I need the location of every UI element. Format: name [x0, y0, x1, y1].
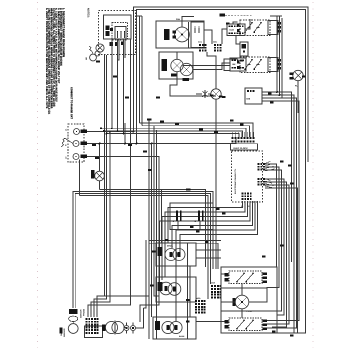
wire clock drop A: [168, 201, 243, 243]
wire clock fan 1: [265, 164, 277, 267]
wire thermostat drop: [241, 309, 243, 318]
lv connector box: [85, 326, 103, 338]
wire tag 8: [186, 299, 190, 301]
wire center riser 3: [154, 126, 159, 296]
wire clock fan 3: [265, 170, 282, 311]
clock dashed enclosure: [232, 151, 263, 202]
surface switch A right pins: [278, 22, 282, 25]
svg-text:T'STAT: T'STAT: [246, 310, 253, 313]
transformer primary: [105, 321, 117, 333]
wire tag 4: [165, 239, 169, 241]
svg-text:1. DISCONNECT RANGE FROM POWER: 1. DISCONNECT RANGE FROM POWER: [62, 8, 65, 57]
notes text block: [45, 8, 73, 120]
terminal lug L2: [81, 155, 88, 159]
wire tag 14: [143, 151, 147, 153]
third igniter box: [153, 317, 196, 339]
wire tag 16: [175, 123, 179, 125]
wire tag 25: [240, 123, 244, 125]
relay K2 pins: [232, 59, 234, 61]
wire drop pair D: [117, 39, 119, 131]
wire bundle clock 2: [142, 126, 250, 137]
wire tag 2: [186, 189, 191, 191]
surface switch B right pins: [278, 59, 282, 62]
surface switch B right box: [268, 58, 278, 72]
terminal lug N: [81, 142, 88, 146]
svg-text:NOTES:: NOTES:: [87, 8, 90, 18]
valve switch 2 right pins: [263, 319, 267, 322]
harness connector grid: [211, 285, 213, 287]
fan lead tags: [171, 74, 177, 77]
wire valve internal 1: [249, 288, 277, 303]
surface switch B dashed box: [240, 57, 270, 73]
wire drop B to L1 corner: [91, 132, 110, 318]
bake igniter label: [158, 282, 163, 291]
wire bus riser 4: [141, 16, 143, 126]
wire L2 feed: [87, 157, 159, 297]
wire cross line 1: [149, 240, 221, 242]
cavity loop line 3: [75, 194, 210, 309]
wire top bus stub: [135, 15, 142, 17]
wire clock fan 7: [265, 188, 298, 333]
wire tag 34: [262, 256, 266, 258]
surface indicator lamp: [90, 54, 97, 61]
surface switch B left pins: [237, 61, 240, 64]
clock body box: [231, 144, 258, 150]
terminal stud L2: [73, 154, 79, 160]
wire tag 22: [222, 96, 226, 98]
wire bundle clock 4: [104, 131, 243, 137]
right perforation dotted line: [312, 2, 314, 348]
DSI module box: [245, 88, 262, 104]
door latch box: [170, 203, 213, 230]
oven sensor ferrule: [69, 309, 77, 314]
wire tag 15: [160, 121, 164, 123]
cooling fan motor 1: [171, 59, 183, 71]
oven light labels: [91, 170, 94, 179]
wire clock drop E: [172, 201, 253, 248]
wire lamp drop: [297, 81, 299, 113]
valve switch 2 contacts: [237, 321, 244, 329]
pilot assembly between rows: [240, 42, 248, 56]
wire drop C: [111, 39, 113, 128]
connector block CB1: [214, 44, 216, 46]
wire switch top link: [270, 15, 282, 17]
wire L1 feed: [87, 131, 134, 133]
surface lamp lead squiggle: [89, 46, 92, 51]
valve switch 1 dashed box: [229, 271, 262, 284]
wire bundle clock 3: [101, 128, 246, 137]
wire tag 29: [196, 230, 200, 232]
wire tag 23: [268, 92, 272, 94]
svg-text:BAKE: BAKE: [179, 335, 185, 338]
wire junction riser: [124, 123, 126, 144]
spark cap 2: [131, 326, 136, 331]
broil igniter label: [158, 247, 163, 256]
oven light lamp: [95, 171, 105, 181]
wire tag 42: [128, 144, 132, 146]
wire motor links: [182, 17, 194, 28]
spark module outer dashed box: [99, 11, 136, 55]
svg-text:PROBE: PROBE: [83, 308, 86, 316]
clock right pins 1: [258, 163, 260, 165]
wire bus riser 3: [139, 16, 141, 123]
wire tag 18: [214, 131, 218, 133]
wire relay K1 feeds: [222, 29, 227, 44]
spark module pin labels: [110, 42, 114, 46]
svg-text:BK: BK: [233, 63, 237, 66]
wire lamp links: [208, 93, 211, 95]
oven thermostat: [235, 295, 249, 309]
wire bottom corner: [297, 326, 299, 333]
wire cross line 2: [149, 243, 218, 269]
spark module grid: [195, 300, 197, 302]
wire tag 3: [219, 96, 223, 98]
wire DSI fanout 3: [262, 98, 297, 328]
wire tag 9: [148, 169, 152, 171]
wire tag 26: [216, 208, 220, 210]
wire clock drop C: [162, 201, 248, 280]
oven light wire up: [99, 144, 101, 172]
valve section outer box: [221, 267, 277, 333]
svg-text:FAN: FAN: [176, 18, 181, 21]
door plug 2: [198, 211, 200, 222]
wire row feeds: [233, 22, 238, 24]
wire bundle clock 5: [107, 134, 240, 137]
wire fan riser: [170, 72, 216, 96]
surface switch B contacts: [245, 60, 252, 69]
wire clock drop F: [176, 201, 255, 321]
connector block CA1: [199, 44, 201, 46]
svg-text:L2: L2: [65, 156, 68, 159]
wire tag 13: [125, 97, 129, 99]
motor aux box: [191, 22, 204, 48]
ground squiggle: [62, 138, 66, 147]
spark module inner dashed box: [112, 23, 128, 41]
pin stub wires 2: [265, 179, 271, 181]
terminal stud N: [73, 141, 79, 147]
wire tag 20: [95, 157, 99, 159]
wire valve internal 2: [221, 301, 235, 303]
svg-text:A: A: [172, 220, 175, 222]
cavity loop line 2: [73, 192, 213, 309]
wire clock fan 6: [265, 185, 289, 324]
wire tag 12: [113, 76, 117, 78]
wire switch riser 1: [276, 16, 278, 92]
relay K2 box: [230, 58, 246, 71]
svg-text:DSI: DSI: [247, 98, 251, 101]
svg-text:MOD: MOD: [196, 297, 201, 300]
spark power lamp: [293, 70, 303, 80]
valve switch 1 contacts: [237, 274, 244, 282]
wire clock drop D: [160, 201, 251, 284]
wire clock drop B: [165, 201, 245, 277]
wire drop pair A: [97, 55, 105, 317]
svg-text:ELEC CLOCK: ELEC CLOCK: [234, 147, 249, 150]
surface switch A dashed box: [240, 20, 270, 36]
wire latch drops: [177, 221, 179, 230]
wire bundle clock 1: [140, 123, 254, 137]
wire DSI fanout 2: [262, 95, 294, 333]
wire cap riser: [144, 240, 147, 308]
wire drop F long: [88, 39, 131, 317]
wire top bus line 1: [134, 7, 309, 162]
svg-text:DLB: DLB: [230, 29, 235, 32]
wire center riser 4: [156, 130, 158, 339]
cooling fan enclosure: [159, 52, 193, 79]
relay K1 pins: [229, 25, 231, 27]
wire switch riser 3: [281, 18, 283, 98]
wire riser 5: [161, 190, 163, 244]
surface switch A right box: [268, 21, 278, 35]
wire valve box horizontals: [221, 273, 225, 275]
wire fans to relay: [183, 65, 230, 67]
cooling fan enclosure label: [162, 59, 168, 71]
wire riser cross links: [140, 296, 159, 322]
clock pin header row 1: [232, 137, 234, 139]
wire tag 28: [190, 226, 194, 228]
svg-text:BROIL: BROIL: [167, 245, 174, 248]
wire clock fan 4: [265, 179, 284, 315]
spark switch aux contact: [95, 51, 100, 56]
lv connector grid: [86, 318, 88, 320]
oven sensor collar: [69, 316, 78, 321]
bake igniter box: [156, 277, 196, 302]
third igniter label: [155, 321, 160, 330]
wire tag 33: [290, 335, 294, 337]
svg-text:NE: NE: [85, 57, 88, 60]
wire tag 30: [152, 251, 156, 253]
surface switch A left pins: [237, 24, 240, 27]
third igniter coils: [162, 321, 174, 333]
wire top bus line 2: [137, 10, 306, 334]
transformer secondary: [112, 321, 124, 333]
wire drop pair E: [123, 39, 125, 134]
wire tag 21: [210, 95, 214, 97]
terminal block dashed outline: [68, 124, 84, 162]
spark lamp pins: [290, 72, 294, 75]
surface switch A contacts: [245, 23, 252, 32]
wire tag 10: [186, 321, 190, 323]
wire igniter link 2: [189, 266, 191, 317]
wire clock drop G: [180, 201, 258, 252]
left perforation dotted line: [37, 2, 39, 348]
wire tag 31: [150, 285, 154, 287]
motor lead blobs: [173, 31, 176, 34]
relay K1 box: [227, 24, 245, 36]
motor aux marks: [194, 26, 196, 28]
svg-text:N: N: [65, 144, 68, 146]
wire thermostat feed: [241, 284, 243, 295]
wire tag 17: [199, 129, 203, 131]
broil igniter box: [156, 243, 196, 266]
clock bottom pins: [242, 193, 244, 195]
wire igniter link 1: [187, 243, 189, 339]
bake igniter coils: [160, 282, 173, 295]
pin stub wires 1: [265, 161, 271, 163]
spark module inner frame: [104, 15, 132, 39]
wire transformer links: [124, 327, 126, 329]
wire tag 39: [240, 59, 244, 61]
valve switch 2 dashed box: [229, 318, 262, 331]
svg-text:L1: L1: [65, 128, 68, 131]
lamp switch asterisk: [203, 91, 208, 97]
ground wire: [65, 138, 73, 143]
wire tag 41: [156, 97, 160, 99]
door plug 1: [176, 211, 178, 222]
wire tag 5: [205, 241, 209, 243]
clock right pins 2: [258, 178, 260, 180]
wire tag 19: [92, 144, 96, 146]
wire clock fan 5: [265, 182, 287, 327]
svg-text:CONNECT TO RANGE CKT: CONNECT TO RANGE CKT: [70, 87, 73, 120]
wire center riser 1: [148, 120, 150, 339]
wire tag 11: [96, 61, 100, 63]
DSI module pins: [247, 90, 249, 92]
svg-text:ELECTRONIC RANGE CTL: ELECTRONIC RANGE CTL: [234, 168, 237, 194]
svg-text:CN9: CN9: [211, 282, 215, 285]
convection motor enclosure label: [164, 29, 170, 40]
wire lamp riser: [215, 61, 217, 89]
wire tag 6: [280, 161, 284, 163]
oven sensor lead tag: [60, 328, 63, 334]
spark module innermost box: [115, 27, 126, 40]
cavity loop line 1: [100, 190, 206, 268]
svg-text:CA1: CA1: [198, 41, 202, 44]
spark igniter switch rotary: [96, 44, 104, 52]
transformer core: [113, 321, 115, 335]
wire tag 32: [272, 331, 276, 333]
cooling fan motor 2: [180, 63, 192, 75]
clock pin leads: [232, 132, 234, 137]
spark cap 1: [124, 326, 129, 331]
wire bus dashed segment: [225, 14, 252, 16]
wire tag 1: [147, 119, 152, 121]
motor divider lines: [188, 22, 190, 48]
wire DSI fanout 1: [262, 92, 292, 262]
valve switch 1 left pins: [225, 273, 229, 276]
wire tag 38: [302, 76, 306, 78]
transformer lead tag: [102, 325, 105, 332]
oven cavity lamp: [211, 89, 221, 99]
wire N to clock corner: [235, 137, 237, 144]
wire N feed: [87, 143, 236, 145]
wire tag 37: [290, 183, 294, 185]
cavity loop line 4: [80, 196, 209, 300]
valve switch 2 left pins: [225, 320, 229, 323]
svg-text:SENSOR: SENSOR: [63, 328, 66, 337]
spark module dark cluster: [106, 26, 110, 31]
svg-text:B: B: [194, 220, 197, 222]
valve switch 1 right pins: [263, 272, 267, 275]
thermostat label tags: [233, 298, 236, 306]
svg-text:CB1: CB1: [213, 41, 217, 44]
wire center riser 2: [151, 144, 153, 318]
clock pin header row 2: [232, 140, 234, 142]
wire switch riser 2: [279, 16, 281, 95]
broil igniter coils: [165, 249, 177, 261]
wire tag 24: [270, 101, 274, 103]
wire tag 7: [230, 120, 234, 122]
wire tag 35: [280, 245, 284, 247]
svg-text:SENSOR: SENSOR: [80, 309, 83, 318]
wire tag 40: [226, 22, 230, 24]
oven sensor bulb: [68, 324, 78, 334]
wire DSI fanout 4: [262, 101, 299, 321]
terminal stud L1: [74, 129, 80, 135]
terminal lug L1: [81, 130, 88, 134]
wire tag 36: [288, 165, 292, 167]
wire tag 27: [222, 212, 226, 214]
wire clock fan 2: [265, 167, 279, 288]
wire lamp drop: [215, 99, 217, 269]
spark switch contacts: [117, 31, 119, 33]
convection motor enclosure: [156, 21, 204, 48]
oven light wire down: [99, 181, 101, 190]
bus connector mark: [220, 14, 226, 17]
convection motor: [175, 27, 190, 42]
